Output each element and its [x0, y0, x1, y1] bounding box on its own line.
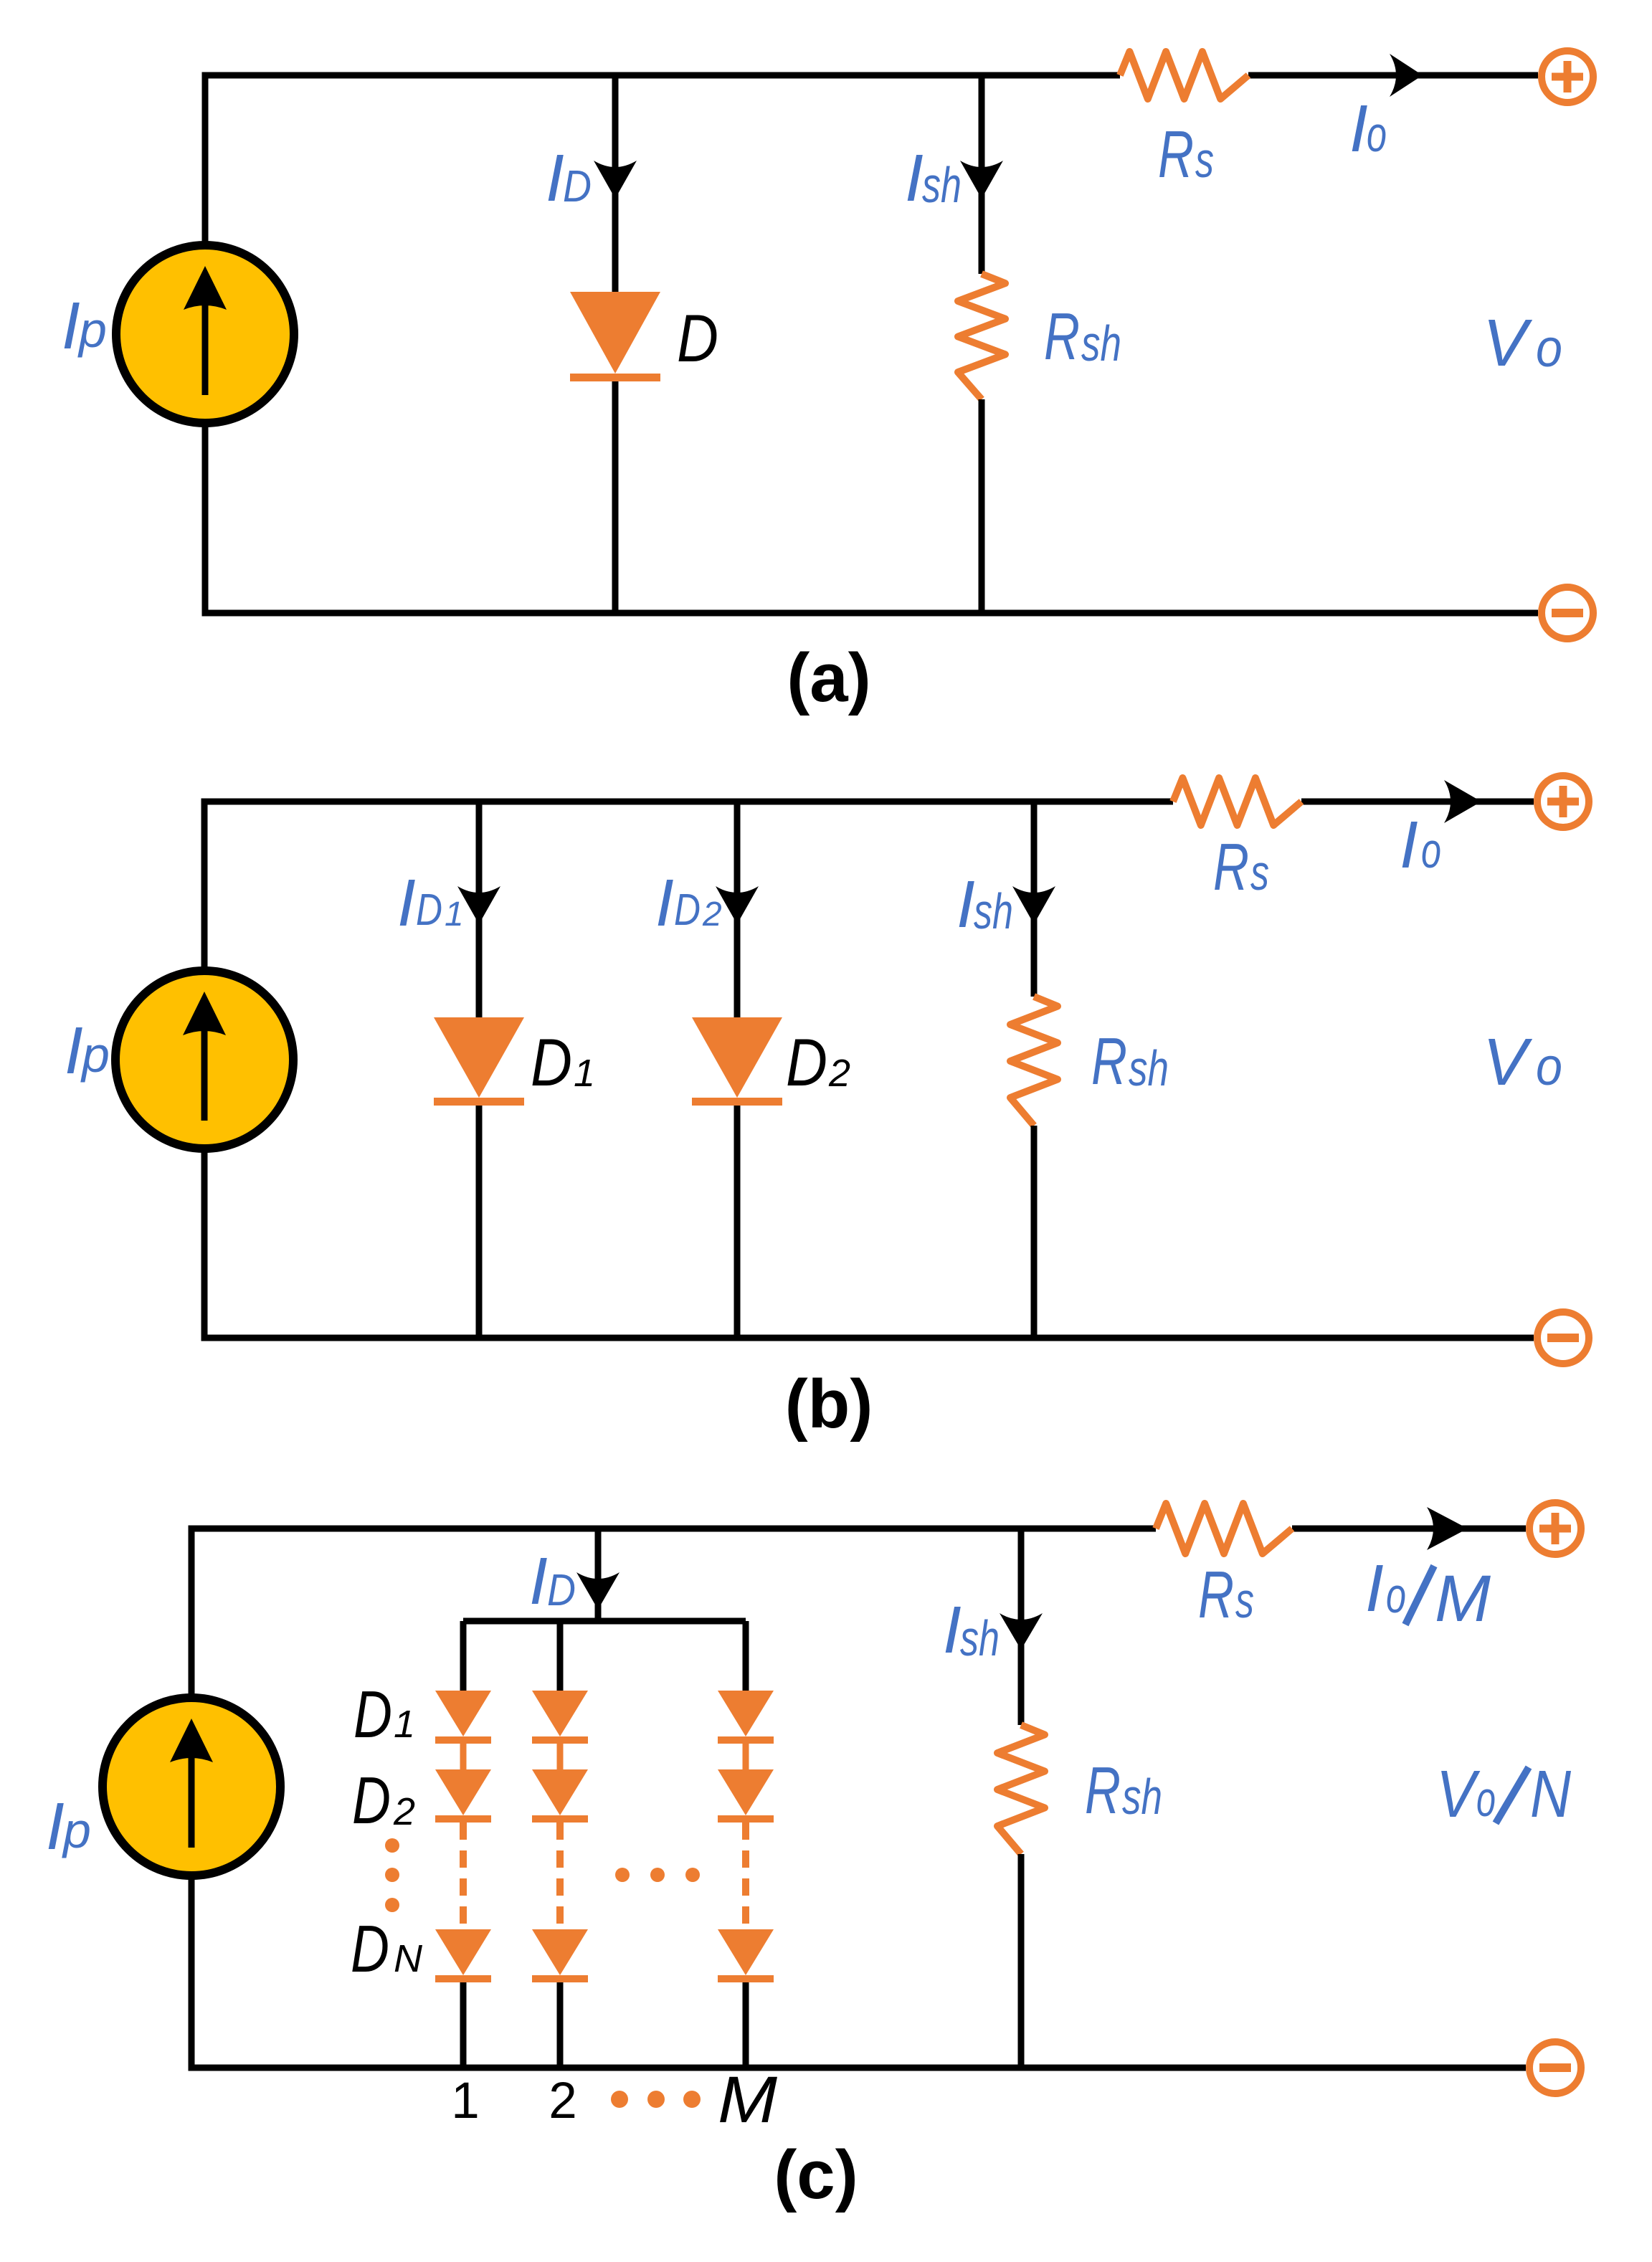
svg-text:N: N [394, 1937, 423, 1980]
svg-text:2: 2 [549, 2073, 577, 2129]
current arrow ID (c) [576, 1572, 619, 1610]
current arrow Io (b) [1444, 780, 1481, 823]
label caption (b) [785, 1366, 873, 1443]
current source Ip (b) [115, 971, 293, 1149]
wire c shunt branch lower [1018, 1854, 1025, 2068]
node label 1 [451, 2073, 480, 2129]
label Rs (b) [1213, 830, 1269, 904]
diode D (a) [570, 292, 660, 381]
svg-text:D: D [677, 300, 718, 376]
label Ish (b) [956, 867, 1013, 941]
svg-text:V: V [1436, 1757, 1481, 1831]
wire c col3 lower [743, 1982, 749, 2068]
resistor Rs (b) [1173, 778, 1301, 825]
label Ip (c) [46, 1789, 91, 1863]
node label M [718, 2063, 777, 2137]
current arrow Io/M (c) [1427, 1507, 1468, 1550]
wire b diode1 branch lower [476, 1106, 483, 1338]
diode D1 (b) [434, 1017, 524, 1106]
label Rs (c) [1198, 1557, 1254, 1632]
svg-text:1: 1 [445, 895, 464, 933]
diode D1 col2 (c) [532, 1691, 588, 1744]
svg-text:(b): (b) [785, 1366, 873, 1443]
svg-text:I: I [65, 1013, 83, 1088]
current arrow ID1 (b) [457, 886, 500, 924]
wire b diode1 branch upper [476, 802, 483, 1017]
diode D1 col1 (c) [435, 1691, 491, 1744]
wire a left lower [202, 423, 209, 613]
svg-text:o: o [1476, 1771, 1496, 1827]
svg-text:R: R [1085, 1753, 1121, 1828]
label DN (c) [351, 1911, 423, 1986]
svg-text:sh: sh [1122, 1769, 1162, 1825]
wire a diode branch lower [612, 381, 619, 613]
diode D1 col3 (c) [718, 1691, 774, 1744]
terminal + (b) [1537, 776, 1589, 827]
dashed stem col2 D2-DN [556, 1823, 564, 1929]
svg-text:M: M [718, 2063, 777, 2137]
svg-text:I: I [1349, 91, 1368, 166]
svg-text:o: o [1421, 822, 1441, 878]
svg-text:p: p [62, 1802, 91, 1858]
svg-text:o: o [1536, 1037, 1562, 1096]
label caption (a) [787, 640, 870, 716]
current arrow Ish (b) [1012, 886, 1055, 924]
wire b left lower [201, 1149, 208, 1338]
terminal - (c) [1529, 2042, 1581, 2094]
svg-text:o: o [1367, 106, 1387, 162]
label D (a) [677, 300, 718, 376]
label Rsh (b) [1091, 1024, 1169, 1098]
svg-text:M: M [1435, 1562, 1491, 1635]
svg-text:sh: sh [1081, 315, 1121, 371]
circuit (a): single-diode solar cell model [62, 51, 1593, 716]
wire b shunt branch lower [1031, 1126, 1038, 1338]
svg-text:(a): (a) [787, 640, 870, 716]
label Io/M (c) [1365, 1551, 1491, 1635]
label D2 (c) [352, 1763, 415, 1838]
wire a top [205, 72, 1120, 79]
svg-text:D: D [547, 1566, 576, 1615]
label caption (c) [774, 2137, 858, 2213]
label Vo (b) [1483, 1025, 1562, 1099]
label D2 (b) [786, 1025, 850, 1100]
svg-text:I: I [46, 1789, 65, 1863]
wire b bottom [204, 1338, 1534, 1341]
svg-text:D: D [786, 1025, 827, 1100]
svg-text:sh: sh [974, 883, 1013, 939]
label ID2 (b) [655, 865, 722, 940]
label ID (a) [546, 141, 592, 215]
label Vo/N (c) [1436, 1757, 1572, 1831]
label Ish (a) [905, 141, 962, 215]
svg-text:2: 2 [702, 895, 722, 933]
wire b diode2 branch lower [734, 1106, 741, 1338]
dashed stem col1 D2-DN [460, 1823, 467, 1929]
svg-text:I: I [1400, 807, 1418, 882]
svg-text:D: D [353, 1677, 392, 1752]
svg-text:I: I [397, 865, 416, 940]
diode DN col3 (c) [718, 1929, 774, 1982]
wire b top right [1301, 799, 1534, 805]
terminal - (b) [1537, 1312, 1589, 1364]
svg-text:D: D [351, 1911, 389, 1986]
svg-text:I: I [62, 288, 80, 363]
label D1 (b) [531, 1025, 595, 1100]
wire c col2 lower [557, 1982, 564, 2068]
wire c shunt branch upper [1018, 1529, 1025, 1725]
label Vo (a) [1483, 305, 1562, 380]
svg-text:I: I [956, 867, 975, 941]
label Rsh (c) [1085, 1753, 1162, 1828]
wire a left upper [202, 72, 209, 246]
current arrow Ish (c) [1000, 1613, 1043, 1650]
wire a bottom [205, 613, 1538, 617]
wire b top [204, 799, 1173, 805]
svg-text:2: 2 [393, 1790, 415, 1833]
current arrow ID (a) [594, 161, 637, 199]
svg-text:I: I [943, 1592, 962, 1667]
current arrow Io (a) [1390, 54, 1423, 97]
circuit (c): generalized M x N diode array model [46, 1503, 1581, 2213]
label Io (b) [1400, 807, 1441, 882]
ellipsis dots bottom (c) [611, 2091, 701, 2108]
svg-text:o: o [1386, 1567, 1406, 1623]
wire col2 stem D1-D2 [557, 1744, 564, 1769]
wire c col1 connector [460, 1621, 467, 1691]
svg-text:V: V [1483, 305, 1533, 380]
resistor Rsh (b) [1010, 997, 1058, 1126]
terminal + (a) [1542, 51, 1593, 103]
diode D2 col2 (c) [532, 1769, 588, 1823]
wire a shunt branch upper [979, 75, 985, 274]
terminal - (a) [1542, 587, 1593, 639]
label Ip (a) [62, 288, 107, 363]
label D1 (c) [353, 1677, 415, 1752]
resistor Rs (a) [1120, 52, 1248, 99]
wire c col3 connector [743, 1621, 749, 1691]
terminal + (c) [1529, 1503, 1581, 1554]
ellipsis dots vertical (c) [385, 1838, 399, 1912]
wire a diode branch upper [612, 75, 619, 292]
svg-text:I: I [655, 865, 674, 940]
svg-text:I: I [546, 141, 564, 215]
diode D2 col3 (c) [718, 1769, 774, 1823]
wire a shunt branch lower [979, 399, 985, 613]
svg-text:sh: sh [960, 1610, 1000, 1666]
diode DN col1 (c) [435, 1929, 491, 1982]
svg-text:1: 1 [394, 1703, 415, 1746]
svg-text:R: R [1213, 830, 1249, 904]
svg-text:s: s [1235, 1572, 1254, 1628]
svg-text:V: V [1483, 1025, 1533, 1099]
svg-text:s: s [1195, 132, 1214, 188]
svg-text:p: p [80, 1027, 110, 1083]
diode D2 (b) [692, 1017, 782, 1106]
wire b diode2 branch upper [734, 802, 741, 1017]
wire b left upper [201, 799, 208, 971]
svg-text:sh: sh [922, 157, 962, 213]
svg-text:N: N [1530, 1757, 1572, 1831]
wire c diode bus [463, 1618, 746, 1625]
svg-text:1: 1 [574, 1052, 595, 1095]
svg-text:D: D [352, 1763, 391, 1838]
svg-text:R: R [1044, 299, 1080, 374]
svg-text:s: s [1250, 845, 1269, 900]
resistor Rsh (c) [997, 1725, 1045, 1854]
wire c col2 connector [557, 1621, 564, 1691]
current source Ip (a) [116, 245, 294, 423]
label Rsh (a) [1044, 299, 1121, 374]
wire col3 stem D1-D2 [743, 1744, 749, 1769]
label Rs (a) [1158, 117, 1214, 191]
ellipsis dots middle (c) [615, 1868, 700, 1882]
wire c bottom [191, 2068, 1526, 2071]
svg-text:R: R [1091, 1024, 1127, 1098]
svg-text:I: I [529, 1544, 548, 1618]
label ID1 (b) [397, 865, 464, 940]
wire c top [191, 1526, 1156, 1532]
wire c left lower [189, 1876, 195, 2068]
resistor Rsh (a) [958, 274, 1005, 399]
current source Ip (c) [103, 1698, 280, 1876]
svg-text:o: o [1536, 318, 1562, 378]
svg-text:I: I [1365, 1551, 1384, 1625]
svg-text:(c): (c) [774, 2137, 858, 2213]
svg-text:D: D [531, 1025, 572, 1100]
label Io (a) [1349, 91, 1387, 166]
resistor Rs (c) [1156, 1503, 1292, 1554]
dashed stem col3 D2-DN [742, 1823, 749, 1929]
label Ish (c) [943, 1592, 1000, 1667]
svg-text:D: D [563, 162, 592, 212]
wire col1 stem D1-D2 [460, 1744, 467, 1769]
label ID (c) [529, 1544, 576, 1618]
wire c left upper [189, 1526, 195, 1698]
current arrow Ish (a) [960, 161, 1003, 199]
svg-text:2: 2 [828, 1052, 850, 1095]
svg-text:1: 1 [451, 2073, 480, 2129]
wire a top right [1248, 72, 1538, 79]
svg-text:I: I [905, 141, 924, 215]
svg-text:p: p [77, 302, 107, 358]
label Ip (b) [65, 1013, 110, 1088]
svg-text:sh: sh [1129, 1040, 1169, 1096]
svg-text:D: D [416, 885, 442, 935]
wire c top right [1292, 1526, 1526, 1532]
wire b shunt branch upper [1031, 802, 1038, 997]
wire c col1 lower [460, 1982, 467, 2068]
diode DN col2 (c) [532, 1929, 588, 1982]
current arrow ID2 (b) [716, 886, 759, 924]
svg-text:D: D [674, 885, 701, 935]
node label 2 [549, 2073, 577, 2129]
diode D2 col1 (c) [435, 1769, 491, 1823]
wire c ID stub [595, 1529, 602, 1621]
svg-text:R: R [1198, 1557, 1234, 1632]
svg-text:R: R [1158, 117, 1194, 191]
circuit (b): two-diode solar cell model [65, 776, 1589, 1443]
